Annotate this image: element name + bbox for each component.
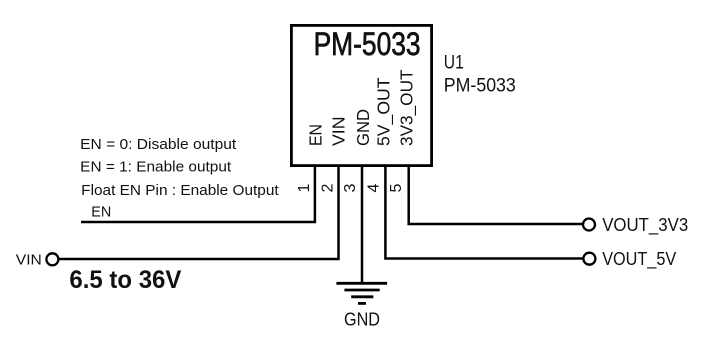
wire pin4 5V_OUT net xyxy=(385,167,583,259)
node VOUT_5V terminal xyxy=(583,253,595,265)
svg-text:VIN: VIN xyxy=(329,117,349,147)
svg-text:U1: U1 xyxy=(444,52,464,74)
svg-text:2: 2 xyxy=(319,183,336,192)
wire pin5 3V3_OUT net xyxy=(409,167,583,225)
node VOUT_3V3 terminal xyxy=(583,219,595,231)
svg-text:6.5 to 36V: 6.5 to 36V xyxy=(69,266,181,294)
svg-text:5V_OUT: 5V_OUT xyxy=(373,77,394,146)
svg-text:Float EN Pin : Enable Output: Float EN Pin : Enable Output xyxy=(81,182,279,199)
svg-text:1: 1 xyxy=(296,183,313,192)
svg-text:GND: GND xyxy=(353,109,373,146)
node VIN terminal xyxy=(46,253,58,265)
svg-text:3V3_OUT: 3V3_OUT xyxy=(396,69,417,146)
wire pin1 EN net xyxy=(81,167,315,223)
ground xyxy=(336,283,387,303)
svg-text:EN: EN xyxy=(91,204,111,221)
svg-text:4: 4 xyxy=(366,183,383,192)
wire pin3 GND net xyxy=(361,167,364,284)
svg-text:EN: EN xyxy=(305,124,325,146)
op-amp U1 (PM-5033 regulator body) xyxy=(291,25,431,165)
wire pin2 VIN net xyxy=(59,167,338,260)
svg-text:PM-5033: PM-5033 xyxy=(444,74,516,96)
svg-text:PM-5033: PM-5033 xyxy=(314,26,421,62)
svg-text:VOUT_3V3: VOUT_3V3 xyxy=(602,215,688,236)
svg-text:VIN: VIN xyxy=(16,252,42,269)
svg-text:EN = 1: Enable output: EN = 1: Enable output xyxy=(80,158,232,175)
svg-text:5: 5 xyxy=(388,183,405,192)
svg-text:3: 3 xyxy=(342,183,359,192)
svg-text:GND: GND xyxy=(344,310,380,330)
svg-text:VOUT_5V: VOUT_5V xyxy=(602,249,676,270)
svg-text:EN = 0: Disable output: EN = 0: Disable output xyxy=(80,136,237,153)
